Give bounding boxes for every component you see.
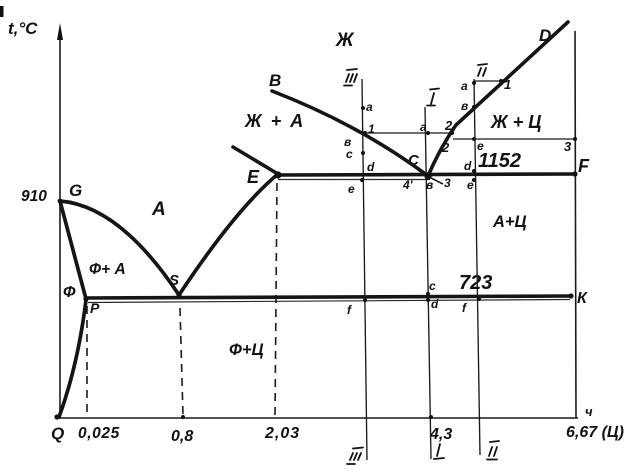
segment AE xyxy=(233,147,278,174)
thin line under ECF xyxy=(278,179,430,181)
svg-text:в: в xyxy=(461,99,468,113)
svg-text:е: е xyxy=(467,178,474,192)
roman II bottom marker xyxy=(487,441,499,460)
y-axis xyxy=(57,23,63,418)
svg-text:P: P xyxy=(90,300,100,316)
svg-text:1: 1 xyxy=(368,122,375,136)
scan artifact top-left edge xyxy=(0,6,4,17)
svg-text:f: f xyxy=(462,301,467,315)
svg-text:1152: 1152 xyxy=(478,150,521,172)
svg-text:а: а xyxy=(366,100,373,114)
liquidus BC xyxy=(272,91,428,176)
vertical line I (4.3) xyxy=(425,107,431,459)
svg-text:4,3: 4,3 xyxy=(429,426,452,443)
svg-text:F: F xyxy=(578,156,590,176)
svg-text:2,03: 2,03 xyxy=(264,425,300,442)
svg-text:в: в xyxy=(426,178,433,192)
svg-text:Ф: Ф xyxy=(63,284,76,301)
dashed line 0.8 xyxy=(180,308,183,416)
roman III top marker xyxy=(344,69,357,86)
svg-text:B: B xyxy=(269,71,281,90)
svg-text:2: 2 xyxy=(444,118,453,133)
svg-text:Q: Q xyxy=(51,424,64,443)
svg-text:е: е xyxy=(348,182,355,196)
curve SE xyxy=(179,174,278,295)
svg-text:910: 910 xyxy=(21,188,47,205)
vertical line III xyxy=(362,79,367,460)
svg-text:0,025: 0,025 xyxy=(78,425,120,442)
dashed line 2.03 xyxy=(275,183,277,416)
svg-text:0,8: 0,8 xyxy=(171,428,193,445)
svg-text:G: G xyxy=(69,181,82,200)
svg-text:е: е xyxy=(477,139,484,153)
svg-text:С: С xyxy=(408,152,420,169)
thin line under PSK xyxy=(88,300,570,303)
svg-text:с: с xyxy=(346,147,353,161)
liquidus CD xyxy=(428,22,568,176)
svg-text:3: 3 xyxy=(444,176,451,190)
svg-text:А: А xyxy=(151,199,166,220)
svg-text:d: d xyxy=(431,297,439,311)
svg-text:Ж + А: Ж + А xyxy=(244,111,305,131)
right boundary 6.67% cementite line xyxy=(575,31,576,418)
svg-text:4': 4' xyxy=(402,178,414,192)
svg-text:723: 723 xyxy=(459,272,492,294)
svg-text:3: 3 xyxy=(564,139,572,154)
curve GP xyxy=(60,201,86,299)
curve GS xyxy=(60,201,179,295)
tie line A at y133 xyxy=(362,132,452,134)
roman III bottom marker xyxy=(347,448,363,465)
svg-text:а: а xyxy=(461,79,468,93)
svg-text:2: 2 xyxy=(441,140,450,155)
svg-text:d: d xyxy=(464,159,472,173)
vertical line II xyxy=(474,79,480,455)
node dots small xyxy=(181,79,577,419)
leader line at C to 3 xyxy=(431,178,443,184)
svg-text:Ф+Ц: Ф+Ц xyxy=(229,341,264,359)
eutectoid line PSK 723 xyxy=(85,296,572,298)
svg-text:S: S xyxy=(169,272,179,289)
svg-text:ч: ч xyxy=(585,404,593,419)
x-axis xyxy=(56,417,578,419)
svg-text:f: f xyxy=(347,303,352,317)
svg-text:E: E xyxy=(247,167,260,187)
node dots big (junctions) xyxy=(54,171,577,419)
svg-text:А+Ц: А+Ц xyxy=(492,213,527,231)
roman II top marker xyxy=(478,64,487,76)
eutectic line ECF 1152 xyxy=(278,174,575,175)
svg-text:а: а xyxy=(420,120,427,134)
roman I top marker xyxy=(427,89,439,106)
svg-text:Ж: Ж xyxy=(335,30,355,51)
svg-text:с: с xyxy=(429,279,436,293)
roman I bottom marker xyxy=(434,444,444,459)
svg-text:Ж + Ц: Ж + Ц xyxy=(490,112,541,132)
curve PQ xyxy=(59,300,86,417)
svg-text:Ф+ А: Ф+ А xyxy=(89,261,126,278)
svg-text:d: d xyxy=(367,160,375,174)
svg-text:К: К xyxy=(577,290,588,307)
svg-text:t,°С: t,°С xyxy=(8,19,38,38)
short tie line top at y81 xyxy=(474,80,500,82)
dashed line 0.025 xyxy=(86,306,88,416)
svg-text:1: 1 xyxy=(504,77,511,92)
svg-text:D: D xyxy=(539,26,551,45)
svg-text:6,67 (Ц): 6,67 (Ц) xyxy=(566,424,624,441)
tie line B at y139 xyxy=(453,138,575,140)
